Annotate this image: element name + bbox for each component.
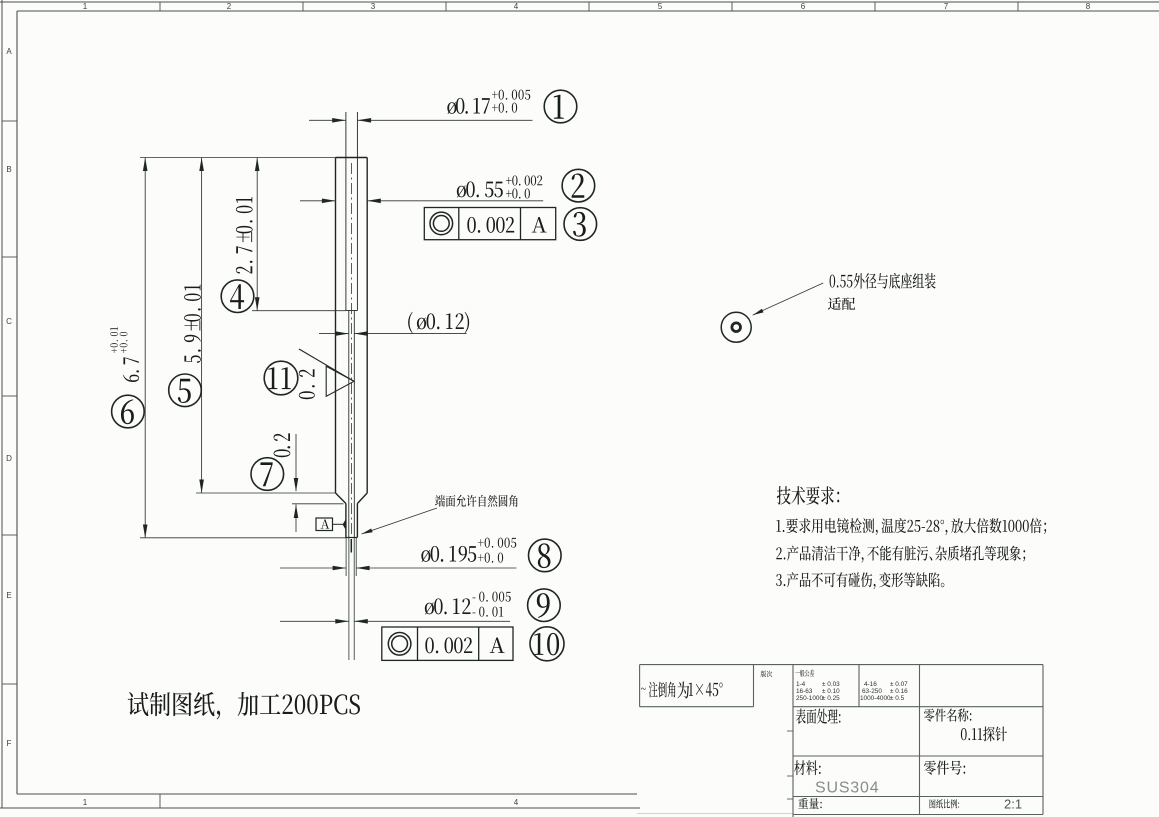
- svg-text:2:1: 2:1: [1004, 797, 1022, 812]
- svg-text:E: E: [6, 591, 11, 600]
- svg-text:F: F: [7, 739, 12, 748]
- svg-text:250-1000: 250-1000: [796, 695, 823, 702]
- svg-text:63-250: 63-250: [862, 688, 882, 695]
- svg-text:B: B: [6, 165, 11, 174]
- svg-text:6: 6: [801, 2, 806, 11]
- svg-text:4: 4: [514, 2, 519, 11]
- svg-text:8: 8: [1086, 2, 1091, 11]
- svg-text:± 0.5: ± 0.5: [890, 695, 905, 702]
- svg-text:SUS304: SUS304: [815, 780, 879, 797]
- svg-text:± 0.07: ± 0.07: [890, 681, 908, 688]
- svg-text:1000-4000: 1000-4000: [860, 695, 891, 702]
- svg-text:± 0.10: ± 0.10: [822, 688, 840, 695]
- svg-text:1: 1: [83, 798, 88, 807]
- svg-text:16-63: 16-63: [796, 688, 813, 695]
- svg-text:4-16: 4-16: [864, 681, 877, 688]
- svg-text:7: 7: [944, 2, 949, 11]
- svg-text:3: 3: [371, 2, 376, 11]
- svg-text:D: D: [6, 454, 12, 463]
- svg-text:± 0.25: ± 0.25: [822, 695, 840, 702]
- svg-text:± 0.03: ± 0.03: [822, 681, 840, 688]
- svg-text:C: C: [6, 317, 12, 326]
- svg-text:4: 4: [514, 798, 519, 807]
- svg-text:A: A: [6, 47, 12, 56]
- svg-text:2: 2: [227, 2, 232, 11]
- svg-text:1-4: 1-4: [796, 681, 806, 688]
- svg-text:1: 1: [83, 2, 88, 11]
- svg-text:± 0.16: ± 0.16: [890, 688, 908, 695]
- svg-text:5: 5: [658, 2, 663, 11]
